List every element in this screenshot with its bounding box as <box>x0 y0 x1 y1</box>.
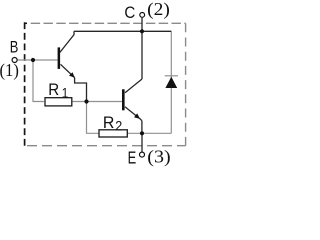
svg-text:R: R <box>48 80 59 99</box>
svg-text:(3): (3) <box>147 147 170 168</box>
svg-text:B: B <box>10 39 19 57</box>
svg-text:1: 1 <box>62 84 69 100</box>
svg-text:E: E <box>128 148 137 168</box>
svg-text:R: R <box>103 113 115 132</box>
svg-text:C: C <box>124 4 135 22</box>
svg-text:2: 2 <box>115 117 122 133</box>
svg-text:(2): (2) <box>147 0 170 20</box>
svg-text:(1): (1) <box>0 60 19 81</box>
